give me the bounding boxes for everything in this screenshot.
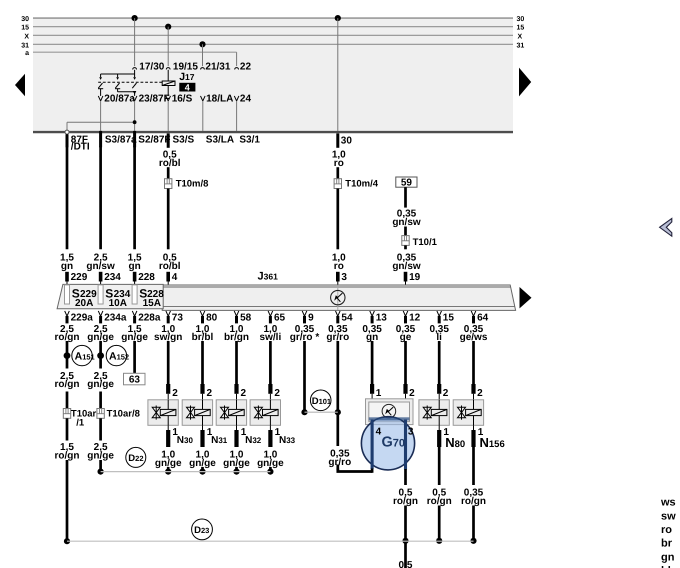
wire 23/87F to S2/87F xyxy=(134,101,136,131)
wire continuation 0,5 bottom xyxy=(399,543,413,568)
svg-text:S2/87F: S2/87F xyxy=(138,134,170,145)
right continuation arrow xyxy=(519,68,531,97)
svg-text:ro: ro xyxy=(334,158,344,169)
terminal 17/30 xyxy=(133,62,165,73)
relay J17 contact feed xyxy=(99,70,136,80)
label 1,5 gn/ge xyxy=(121,324,148,343)
node S2/87F xyxy=(135,131,171,147)
G70 flange band xyxy=(369,417,410,420)
wire G70 pin3 to bus xyxy=(402,506,408,544)
pin 13 xyxy=(370,311,387,324)
svg-text:2: 2 xyxy=(409,388,415,399)
wire S3/S lower xyxy=(167,189,170,250)
wire bus31 to J17 21/31 xyxy=(202,44,204,66)
node S3/LA xyxy=(206,134,234,145)
wire S3/S 0,5 ro/bl upper xyxy=(159,149,181,178)
svg-text:229: 229 xyxy=(71,272,88,283)
node 59 box xyxy=(396,177,417,188)
svg-text:2: 2 xyxy=(172,388,178,399)
node S3/S xyxy=(168,133,194,147)
svg-text:A151: A151 xyxy=(75,350,95,362)
svg-text:15: 15 xyxy=(21,25,29,32)
svg-text:ro/bl: ro/bl xyxy=(159,261,181,272)
fuse S228 15A xyxy=(132,285,164,309)
svg-text:54: 54 xyxy=(341,313,353,324)
wire to N156 pin2 xyxy=(474,341,484,400)
node A151 xyxy=(64,345,95,365)
svg-text:ro/gn: ro/gn xyxy=(393,496,418,507)
wire to injector N33 pin2 xyxy=(270,341,280,400)
fuse S234 10A xyxy=(98,285,131,309)
svg-text:1: 1 xyxy=(376,388,382,399)
label 2,5 gn/ge xyxy=(87,371,114,390)
svg-text:a: a xyxy=(25,50,29,57)
pin 12 xyxy=(403,311,420,324)
svg-text:9: 9 xyxy=(308,313,314,324)
pin 229 xyxy=(67,272,88,285)
pin 228 xyxy=(135,272,156,285)
wire 229a upper xyxy=(66,341,69,369)
svg-text:T10/1: T10/1 xyxy=(413,237,438,248)
wire injector N32 1,0 gn/ge xyxy=(223,450,250,475)
svg-text:3: 3 xyxy=(408,426,414,437)
node S3/87a xyxy=(101,131,137,147)
label 0,5 ro/bl col4 xyxy=(159,252,181,271)
fuse S229 20A xyxy=(65,285,98,309)
wire G70 pin4 inner xyxy=(371,420,374,473)
injector N32 xyxy=(216,400,246,426)
pin 73 xyxy=(166,311,183,324)
pin 234a xyxy=(98,311,127,324)
pin 19 xyxy=(406,272,421,285)
label 2,5 ro/gn xyxy=(55,324,80,343)
svg-text:ro: ro xyxy=(334,261,344,272)
svg-text:gr/ro: gr/ro xyxy=(328,457,351,468)
label 0,35 gn/sw col19 xyxy=(392,252,421,271)
svg-text:D23: D23 xyxy=(194,525,209,536)
wire bus-a to J17 22 xyxy=(236,52,238,66)
junction dot bus30/term30 xyxy=(335,15,341,21)
svg-text:15: 15 xyxy=(517,25,525,32)
svg-text:234a: 234a xyxy=(104,313,127,324)
wire to T10/1 xyxy=(404,227,407,236)
svg-text:12: 12 xyxy=(409,313,421,324)
label 1,0 sw/li xyxy=(260,324,282,343)
terminal 24 xyxy=(234,94,251,105)
svg-text:63: 63 xyxy=(129,374,141,385)
svg-text:gn/sw: gn/sw xyxy=(392,217,421,228)
pin 54 xyxy=(336,311,353,324)
svg-text:20A: 20A xyxy=(75,298,93,309)
label 2,5 gn/ge lower xyxy=(87,418,114,461)
pin 64 xyxy=(471,311,488,324)
pin 65 xyxy=(268,311,285,324)
svg-text:D101: D101 xyxy=(312,396,331,407)
svg-text:10A: 10A xyxy=(109,298,127,309)
label 0,35 ge/ws xyxy=(460,324,488,343)
pin 3 xyxy=(338,272,348,285)
wire branch 87F/DTI xyxy=(67,120,137,131)
svg-text:234: 234 xyxy=(104,272,121,283)
wire to injector N30 pin2 xyxy=(168,341,178,400)
svg-text:228: 228 xyxy=(138,272,155,283)
label 2,5 gn/sw col234 xyxy=(86,252,115,271)
label 0,35 li xyxy=(429,324,449,343)
label 0,5 ro/gn N80 xyxy=(427,488,452,507)
svg-text:2: 2 xyxy=(477,388,483,399)
svg-text:31: 31 xyxy=(517,42,525,49)
svg-text:N33: N33 xyxy=(279,435,296,446)
injector N31 pin1 xyxy=(203,425,228,447)
svg-text:/1: /1 xyxy=(76,418,85,429)
wire bus30 to J17 17/30 xyxy=(134,18,136,66)
fuse box S229/S234/S228 xyxy=(57,284,163,308)
svg-text:X: X xyxy=(518,33,523,40)
svg-text:D22: D22 xyxy=(128,453,143,464)
svg-text:21/31: 21/31 xyxy=(205,62,230,73)
designator G70 xyxy=(382,435,406,451)
valve N156 pin1 xyxy=(474,425,505,450)
svg-text:br: br xyxy=(661,538,673,550)
label 1,0 br/gn xyxy=(224,324,249,343)
svg-text:4: 4 xyxy=(172,272,178,283)
svg-text:T10m/4: T10m/4 xyxy=(345,178,378,189)
wire to N80 pin2 xyxy=(439,341,449,400)
wire 59 upper 0,35 gn/sw xyxy=(392,187,421,228)
svg-text:gn: gn xyxy=(128,261,140,272)
wire G70 pin3 down xyxy=(404,420,407,486)
wire 87F/DTI 1,5 gn xyxy=(66,147,69,250)
svg-text:13: 13 xyxy=(376,313,388,324)
wire col234a mid xyxy=(99,392,102,409)
wire S2/87F 1,5 gn xyxy=(133,147,136,250)
left continuation arrow xyxy=(15,74,25,97)
label 0,35 ge xyxy=(396,324,416,343)
svg-text:gn/sw: gn/sw xyxy=(86,261,115,272)
svg-text:19: 19 xyxy=(409,272,421,283)
svg-text:gn/ge: gn/ge xyxy=(87,379,114,390)
pin 9 xyxy=(302,311,314,324)
air mass meter G70 housing xyxy=(366,399,414,425)
wire to ground bus D23 xyxy=(64,460,70,544)
power rail box (dash panel supply) xyxy=(33,18,513,132)
wire injector N30 1,0 gn/ge xyxy=(155,450,182,475)
bus bar a xyxy=(25,50,237,57)
terminal 18/LA xyxy=(201,94,234,105)
J361 right arrow xyxy=(520,287,532,308)
relay contact branch to 23/87F xyxy=(118,89,137,96)
relay J17 contact blades xyxy=(98,83,137,89)
label 2,5 gn/ge xyxy=(87,324,114,343)
label 0,5 ro/gn G70 xyxy=(393,488,418,507)
svg-text:G70: G70 xyxy=(382,435,406,451)
bus bar 30 xyxy=(21,16,524,23)
label 0,35 gr/ro * xyxy=(290,324,320,343)
relay J17 linkage (dashed) xyxy=(98,81,162,83)
injector ground bus xyxy=(101,471,271,473)
svg-text:2: 2 xyxy=(207,388,213,399)
node 87F/DTI xyxy=(65,130,90,153)
pin 228a xyxy=(132,311,161,324)
bus bar 15 xyxy=(21,25,524,32)
wire T10/1 lower xyxy=(404,245,407,249)
svg-text:15A: 15A xyxy=(143,298,161,309)
pin 4 xyxy=(168,272,178,285)
wire injector N33 1,0 gn/ge xyxy=(257,450,284,475)
svg-text:/DTI: /DTI xyxy=(71,142,90,153)
injector N33 xyxy=(250,400,280,426)
svg-text:ws: ws xyxy=(660,497,676,509)
svg-text:23/87F: 23/87F xyxy=(139,94,170,105)
svg-text:58: 58 xyxy=(240,313,252,324)
svg-text:59: 59 xyxy=(401,177,413,188)
svg-text:20/87a: 20/87a xyxy=(104,94,135,105)
pin 15 xyxy=(437,311,454,324)
svg-text:gn: gn xyxy=(61,261,73,272)
svg-text:24: 24 xyxy=(240,94,252,105)
svg-text:64: 64 xyxy=(477,313,489,324)
svg-text:ro: ro xyxy=(661,524,672,536)
power box bottom rail xyxy=(33,131,513,133)
svg-text:19/15: 19/15 xyxy=(173,62,198,73)
wire to injector bus xyxy=(98,460,104,475)
svg-text:gn/ge: gn/ge xyxy=(87,450,114,461)
wire 24 to S3/1 xyxy=(236,101,238,131)
pin 234 xyxy=(101,272,122,285)
wire bus15 to J17 19/15 xyxy=(167,27,169,66)
label 1,5 gn col228 xyxy=(128,252,142,271)
node A152 xyxy=(97,345,129,365)
injector N31 xyxy=(182,400,212,426)
svg-text:ro/gn: ro/gn xyxy=(427,496,452,507)
node 63 box xyxy=(124,373,146,385)
svg-text:N31: N31 xyxy=(211,435,228,446)
svg-text:ro/gn: ro/gn xyxy=(461,496,486,507)
ground bus D23 line xyxy=(67,540,474,542)
svg-text:J361: J361 xyxy=(258,270,279,282)
wire injector N31 1,0 gn/ge xyxy=(189,450,216,475)
G70 pin4 label xyxy=(376,426,382,437)
svg-text:sw: sw xyxy=(661,510,676,522)
connector T10ar/8 xyxy=(97,408,140,419)
injector N30 xyxy=(148,400,178,426)
wire to injector N32 pin2 xyxy=(237,341,247,400)
svg-text:N30: N30 xyxy=(177,435,194,446)
svg-text:18/LA: 18/LA xyxy=(206,94,233,105)
terminal 22 xyxy=(235,62,252,73)
svg-text:2: 2 xyxy=(241,388,247,399)
terminal 20/87a xyxy=(98,94,135,105)
continuation chevron xyxy=(660,218,672,236)
wire 30 lower xyxy=(336,189,339,250)
wire 228a lower xyxy=(133,341,136,373)
svg-text:X: X xyxy=(24,33,29,40)
svg-text:73: 73 xyxy=(172,313,184,324)
junction dot bus15 xyxy=(165,24,171,30)
wire 20/87a to S3/87a xyxy=(100,101,102,131)
svg-text:A152: A152 xyxy=(109,350,129,362)
wire to G70 pin2 xyxy=(406,341,416,399)
node terminal 30 xyxy=(338,133,353,147)
terminal 23/87F xyxy=(132,94,169,105)
ground point D101 xyxy=(310,390,331,411)
svg-text:16/S: 16/S xyxy=(172,94,193,105)
svg-text:S3/87a: S3/87a xyxy=(105,134,137,145)
valve N80 pin1 xyxy=(439,425,465,450)
wire col229a mid xyxy=(66,392,69,409)
svg-text:31: 31 xyxy=(21,42,29,49)
sensor G70 circle xyxy=(361,417,414,470)
svg-text:15: 15 xyxy=(443,313,455,324)
wire to injector N31 pin2 xyxy=(203,341,213,400)
svg-text:65: 65 xyxy=(274,313,286,324)
label 2,5 ro/gn xyxy=(55,371,80,390)
svg-text:T10ar/8: T10ar/8 xyxy=(107,408,140,419)
svg-text:ro/gn: ro/gn xyxy=(55,379,80,390)
injector N32 pin1 xyxy=(237,425,262,447)
ground point D23 xyxy=(192,519,213,540)
injector N30 pin1 xyxy=(168,425,193,447)
wire pin9 gr/ro* xyxy=(301,341,307,415)
connector T10m/4 xyxy=(334,178,379,189)
control module J361 box xyxy=(162,285,515,310)
svg-text:229a: 229a xyxy=(71,313,94,324)
designator J361 xyxy=(258,270,279,282)
node D101 link xyxy=(305,411,338,413)
svg-text:S3/S: S3/S xyxy=(173,134,195,145)
terminal 16/S xyxy=(166,94,193,105)
svg-text:30: 30 xyxy=(517,16,525,23)
relay J17 coil xyxy=(162,70,175,96)
junction dot bus30/17-30 xyxy=(132,15,138,21)
wire 234a upper xyxy=(99,341,102,369)
label 1,5 gn col229 xyxy=(60,252,74,271)
pin 229a xyxy=(65,311,94,324)
svg-text:2: 2 xyxy=(274,388,280,399)
svg-text:T10m/8: T10m/8 xyxy=(176,178,209,189)
svg-text:gn/sw: gn/sw xyxy=(392,261,421,272)
label 0,35 gn xyxy=(362,324,382,343)
ground point D22 xyxy=(126,447,146,467)
relay designator J17 xyxy=(179,71,195,83)
connector T10/1 xyxy=(402,236,438,248)
svg-text:17/30: 17/30 xyxy=(139,62,164,73)
label 0,35 gr/ro xyxy=(326,324,349,343)
svg-text:80: 80 xyxy=(206,313,218,324)
valve N80 xyxy=(419,400,449,426)
wire 16/S to S3/S xyxy=(167,101,169,131)
svg-text:4: 4 xyxy=(185,82,190,92)
G70 pin3 label xyxy=(408,426,414,437)
wire pin54 gr/ro upper xyxy=(335,341,341,415)
svg-text:gn: gn xyxy=(661,551,675,563)
junction dot bus31 xyxy=(199,41,205,47)
terminal 19/15 xyxy=(166,62,198,73)
svg-text:22: 22 xyxy=(240,62,252,73)
injector N33 pin1 xyxy=(270,425,295,447)
svg-text:S3/LA: S3/LA xyxy=(206,134,234,145)
bus bar X xyxy=(24,33,522,40)
label 1,0 br/bl xyxy=(192,324,214,343)
wire S3/87a 2,5 gn/sw xyxy=(99,147,102,250)
wire bus30 down to terminal 30 exit xyxy=(337,18,339,131)
svg-text:S3/1: S3/1 xyxy=(239,134,260,145)
connector T10ar/1 xyxy=(63,408,96,428)
svg-text:0,5: 0,5 xyxy=(399,560,413,568)
wire pin54 to G70 xyxy=(328,414,372,472)
wire N156 upper segment xyxy=(472,447,475,485)
svg-text:228a: 228a xyxy=(138,313,161,324)
wire N156 to bus xyxy=(470,506,476,544)
valve N156 xyxy=(453,400,483,426)
wire to G70 pin1 xyxy=(372,341,382,399)
wire 30 1,0 ro upper xyxy=(332,149,346,178)
node S3/1 xyxy=(239,134,260,145)
label 1,0 ro col3 xyxy=(332,252,346,271)
wire N80 to bus xyxy=(436,506,442,544)
label 1,5 ro/gn lower xyxy=(55,418,80,461)
svg-text:3: 3 xyxy=(341,272,347,283)
relay location box 4 xyxy=(179,82,195,92)
wire 18/LA to S3/LA xyxy=(202,101,204,131)
svg-text:ro/gn: ro/gn xyxy=(55,450,80,461)
colour legend xyxy=(660,497,676,568)
wire N80 upper segment xyxy=(438,447,441,485)
label 1,0 sw/gn xyxy=(154,324,182,343)
label 0,35 ro/gn N156 xyxy=(461,488,486,507)
svg-text:ro/bl: ro/bl xyxy=(159,158,181,169)
relay contact to 20/87a xyxy=(100,89,102,96)
svg-text:30: 30 xyxy=(341,135,353,146)
symbol K in J361 xyxy=(331,285,345,310)
bus bar 31 xyxy=(21,42,524,49)
pin 80 xyxy=(200,311,217,324)
svg-text:2: 2 xyxy=(443,388,449,399)
svg-text:30: 30 xyxy=(21,16,29,23)
pin 58 xyxy=(234,311,251,324)
svg-text:N32: N32 xyxy=(245,435,262,446)
connector T10m/8 xyxy=(165,178,209,189)
terminal 21/31 xyxy=(201,62,231,73)
